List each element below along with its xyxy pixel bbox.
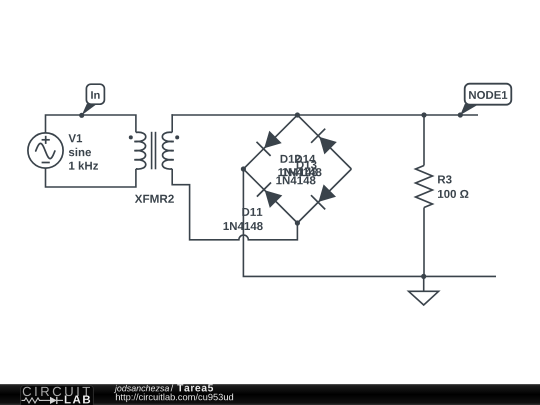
transformer XFMR2 secondary winding — [162, 132, 173, 169]
label D13 value 1N4148 — [276, 176, 315, 184]
label D11 — [242, 208, 262, 216]
footer CircuitLab logo — [21, 385, 94, 405]
label D11 value 1N4148 — [224, 222, 263, 230]
node flag NODE1 pointer — [460, 104, 478, 115]
label D12 — [281, 155, 301, 163]
junction dot ground rail — [421, 274, 426, 279]
label D13 — [297, 161, 317, 169]
label R3 — [438, 175, 452, 183]
wire bridge left corner to ground rail — [243, 169, 496, 276]
bridge wire bottom-right edge — [297, 169, 351, 223]
wire V1 to XFMR2 primary top — [46, 115, 136, 133]
ground symbol — [423, 276, 425, 291]
junction dot R3 top — [421, 112, 426, 117]
wire secondary top terminal — [171, 114, 173, 132]
voltage source V1 sine — [28, 133, 63, 168]
footer url — [116, 394, 233, 403]
junction dot bridge top corner — [295, 112, 300, 117]
diode D12 top-left edge — [264, 131, 282, 149]
node flag In box — [86, 84, 104, 104]
node flag NODE1 text — [469, 91, 507, 99]
wire top rail to NODE1 — [171, 114, 478, 116]
label D14 value 1N4148 — [282, 168, 321, 176]
transformer XFMR2 core — [151, 132, 153, 170]
footer bar — [0, 384, 540, 405]
bridge wire top-right edge — [297, 115, 351, 169]
wire XFMR2 primary bottom to V1 — [46, 169, 136, 188]
diode D11 bottom-left edge — [265, 190, 283, 208]
node flag In text — [91, 91, 99, 99]
wire secondary bottom with crossover hop — [172, 169, 297, 240]
diode D14 top-right edge — [319, 137, 337, 155]
node flag NODE1 dot — [458, 112, 463, 117]
node flag In pointer — [82, 104, 97, 116]
junction dot bridge bottom corner — [295, 220, 300, 225]
node flag In dot — [79, 113, 84, 118]
transformer XFMR2 secondary phase dot — [175, 135, 179, 139]
label V1 — [69, 134, 83, 142]
bridge wire top-left edge — [243, 115, 297, 169]
label V1 type sine — [69, 148, 91, 156]
diode D13 bottom-right edge — [319, 184, 337, 202]
footer title jodsanchezsa / Tarea5 — [114, 385, 169, 393]
label XFMR2 — [135, 195, 174, 203]
junction dot bridge left corner — [241, 166, 246, 171]
label V1 frequency 1 kHz — [69, 161, 98, 169]
bridge wire bottom-left edge — [243, 169, 297, 223]
transformer XFMR2 primary winding — [134, 132, 145, 169]
transformer XFMR2 primary phase dot — [129, 135, 133, 139]
label R3 value 100 ohm — [438, 190, 468, 198]
label D14 — [295, 155, 315, 163]
resistor R3 — [423, 115, 425, 166]
node flag NODE1 box — [465, 84, 512, 105]
label D12 value 1N4148 — [278, 168, 317, 176]
